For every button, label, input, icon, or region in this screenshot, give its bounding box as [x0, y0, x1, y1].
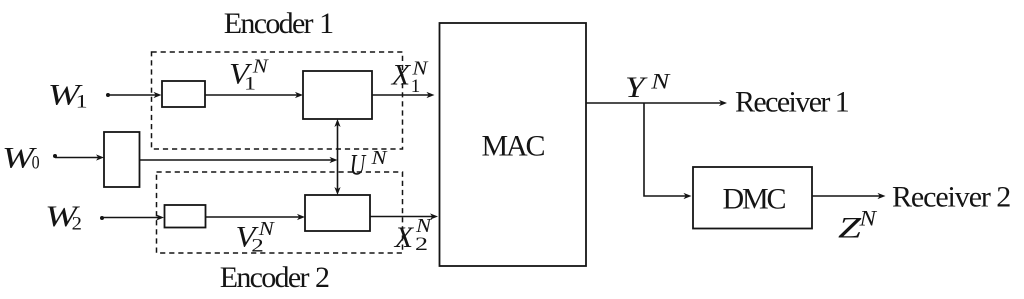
svg-text:X: X [394, 221, 415, 254]
svg-text:N: N [650, 69, 671, 94]
svg-text:0: 0 [32, 153, 40, 174]
svg-text:Encoder 1: Encoder 1 [224, 7, 333, 40]
svg-text:1: 1 [76, 92, 88, 113]
svg-text:N: N [858, 205, 877, 230]
svg-text:2: 2 [251, 235, 263, 256]
svg-text:2: 2 [72, 214, 82, 235]
svg-text:DMC: DMC [723, 183, 786, 216]
svg-text:X: X [391, 59, 412, 92]
svg-text:Receiver 2: Receiver 2 [892, 181, 1010, 214]
svg-text:MAC: MAC [482, 130, 545, 163]
svg-text:U: U [350, 149, 367, 182]
svg-text:Encoder 2: Encoder 2 [220, 261, 329, 294]
svg-text:Receiver 1: Receiver 1 [735, 86, 849, 119]
svg-text:1: 1 [411, 76, 421, 97]
svg-text:2: 2 [415, 234, 428, 255]
svg-text:Y: Y [625, 71, 648, 104]
svg-text:1: 1 [244, 74, 256, 95]
svg-text:N: N [370, 147, 388, 169]
svg-text:Z: Z [838, 212, 861, 245]
